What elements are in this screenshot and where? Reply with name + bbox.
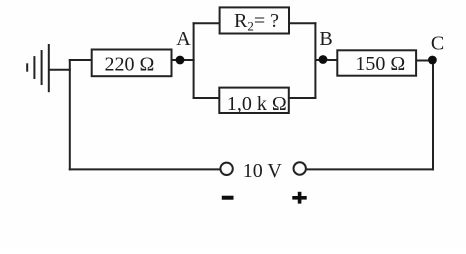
node B junction dot	[319, 55, 328, 64]
svg-text:C: C	[431, 33, 444, 55]
svg-text:150 Ω: 150 Ω	[355, 53, 405, 75]
svg-text:R2= ?: R2= ?	[234, 10, 279, 34]
resistor R2 box	[220, 7, 289, 33]
wire bottom left	[69, 168, 221, 170]
wire ground stub	[49, 69, 71, 71]
wire R4 to node C	[416, 60, 434, 62]
ground	[27, 44, 49, 92]
wire top branch left	[193, 22, 220, 24]
battery plus sign horizontal bar	[292, 196, 306, 200]
wire R1 to node A	[172, 59, 195, 61]
battery minus sign	[222, 196, 234, 200]
resistor R1 box	[92, 50, 172, 77]
node A junction dot	[176, 56, 185, 65]
wire rail to R1	[69, 59, 92, 61]
svg-text:1,0 k Ω: 1,0 k Ω	[227, 93, 287, 115]
battery terminal right circle	[294, 162, 306, 174]
wire parallel left vertical	[193, 22, 195, 99]
resistor R4 box	[337, 50, 416, 75]
battery plus sign vertical bar	[298, 192, 302, 204]
wire bottom branch left	[193, 97, 220, 99]
wire top branch right	[289, 22, 316, 24]
svg-text:220 Ω: 220 Ω	[104, 54, 154, 76]
svg-text:10 V: 10 V	[243, 160, 283, 182]
svg-text:A: A	[176, 28, 191, 50]
wire right vertical	[432, 60, 434, 171]
resistor R3 box	[219, 88, 288, 113]
svg-text:B: B	[319, 28, 332, 50]
wire parallel right vertical	[314, 22, 316, 99]
wire left vertical	[69, 59, 71, 170]
wire node B to R4	[315, 59, 337, 61]
wire bottom branch right	[289, 97, 317, 99]
node C junction dot	[428, 56, 437, 65]
wire bottom right	[306, 168, 434, 170]
battery terminal left circle	[220, 163, 232, 175]
